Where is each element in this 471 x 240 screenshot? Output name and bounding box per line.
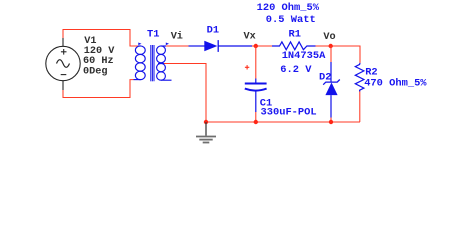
- svg-text:6.2 V: 6.2 V: [280, 64, 312, 76]
- wire: Vx down to capacitor C1 (red): [255, 46, 257, 79]
- svg-text:R1: R1: [289, 29, 301, 41]
- resistor R1: [272, 42, 316, 50]
- primary pin marker dot: [138, 43, 141, 46]
- zener diode D2: [323, 80, 340, 96]
- wire: V1 bottom to transformer primary bottom: [63, 80, 134, 98]
- svg-text:Vo: Vo: [323, 32, 335, 43]
- wire: Vo down to zener D2 (red): [330, 46, 332, 62]
- wire: zener to rail (red): [330, 118, 332, 123]
- svg-text:Vx: Vx: [244, 32, 256, 43]
- resistor R2: [355, 63, 364, 92]
- wire: C1 bottom to rail (red): [255, 112, 257, 122]
- wire: R2 bottom to rail (red): [359, 92, 361, 123]
- svg-text:1N4735A: 1N4735A: [282, 50, 326, 62]
- AC source V1: [46, 38, 80, 90]
- transformer T1 primary winding: [134, 46, 146, 80]
- svg-text:330uF-POL: 330uF-POL: [261, 107, 317, 119]
- junction dot at D2 bottom: [329, 120, 333, 124]
- svg-text:T1: T1: [147, 29, 159, 41]
- ground symbol: [196, 122, 216, 143]
- wire: blue segment into D1 anode: [189, 45, 205, 47]
- svg-text:D1: D1: [207, 25, 219, 37]
- wire: D1 cathode to Vx (blue): [218, 45, 252, 47]
- capacitor C1: [245, 79, 267, 113]
- svg-text:D2: D2: [319, 72, 331, 84]
- wire: transformer center tap to ground node: [164, 64, 206, 123]
- wire: zener top lead (blue): [330, 62, 332, 83]
- capacitor C1 polarity plus: [245, 65, 249, 69]
- junction dot at ground node: [204, 120, 208, 124]
- wire: zener bottom lead (blue): [330, 95, 332, 117]
- transformer T1 core: [151, 45, 154, 81]
- junction dot at C1 bottom: [254, 120, 258, 124]
- svg-text:470 Ohm_5%: 470 Ohm_5%: [364, 78, 427, 90]
- svg-text:0.5 Watt: 0.5 Watt: [266, 14, 316, 26]
- wire: bottom ground rail: [206, 121, 360, 123]
- wire: Vx junction red segment: [252, 45, 272, 47]
- svg-text:Vi: Vi: [171, 30, 183, 42]
- wire: secondary top to D1 (red part): [166, 45, 189, 47]
- svg-text:120 Ohm_5%: 120 Ohm_5%: [257, 2, 320, 14]
- wire: R1 to Vo and to R2 top: [316, 46, 361, 63]
- node Vx junction dot: [254, 44, 258, 48]
- secondary pin marker dot: [166, 43, 169, 46]
- diode D1: [204, 40, 218, 52]
- wire: V1 top to transformer primary top: [63, 30, 140, 47]
- node Vo junction dot: [329, 44, 333, 48]
- transformer T1 secondary winding with center tap: [157, 46, 172, 80]
- svg-text:0Deg: 0Deg: [83, 66, 107, 77]
